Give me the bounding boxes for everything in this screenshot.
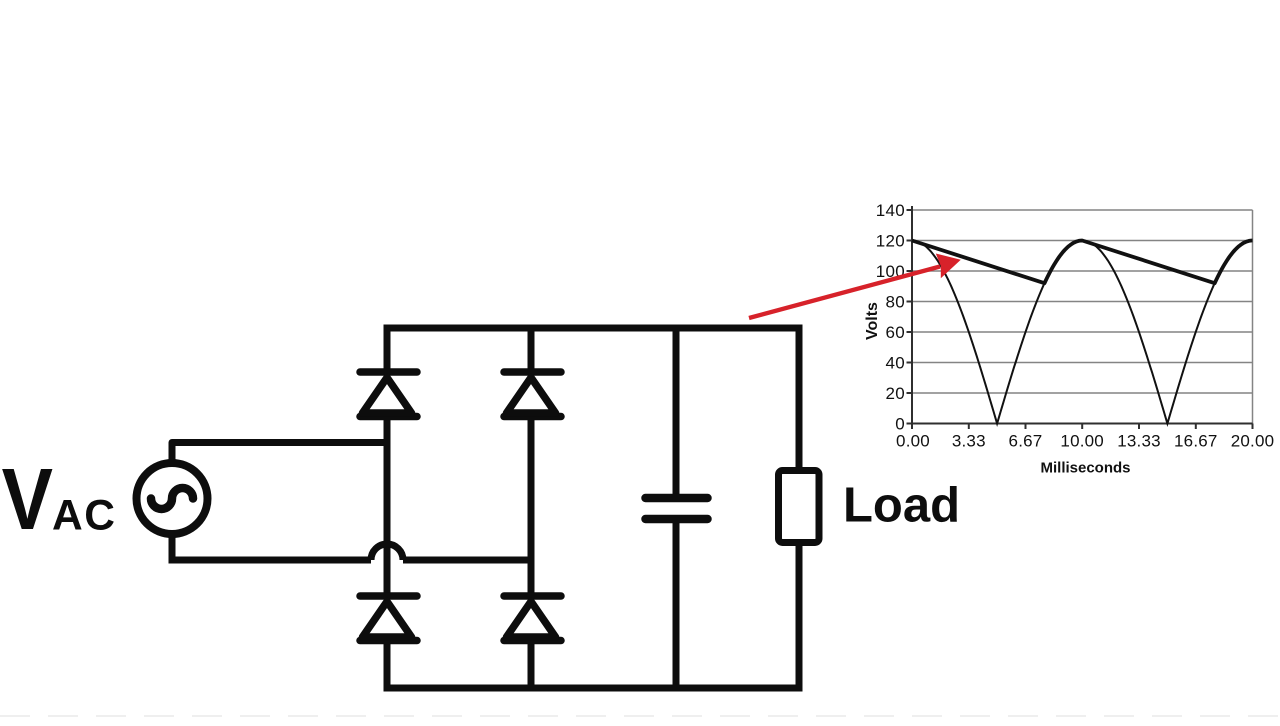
svg-text:80: 80 bbox=[885, 293, 905, 312]
svg-text:V: V bbox=[2, 452, 54, 548]
svg-text:Load: Load bbox=[843, 479, 960, 533]
svg-text:120: 120 bbox=[876, 232, 905, 251]
svg-text:140: 140 bbox=[876, 201, 905, 220]
svg-text:13.33: 13.33 bbox=[1117, 432, 1161, 451]
svg-text:16.67: 16.67 bbox=[1174, 432, 1218, 451]
svg-text:0.00: 0.00 bbox=[896, 432, 930, 451]
svg-text:6.67: 6.67 bbox=[1009, 432, 1043, 451]
svg-text:10.00: 10.00 bbox=[1060, 432, 1104, 451]
svg-text:60: 60 bbox=[885, 323, 905, 342]
svg-text:20: 20 bbox=[885, 384, 905, 403]
svg-text:AC: AC bbox=[52, 493, 116, 540]
svg-text:3.33: 3.33 bbox=[952, 432, 986, 451]
svg-text:20.00: 20.00 bbox=[1231, 432, 1275, 451]
svg-text:40: 40 bbox=[885, 354, 905, 373]
svg-text:Volts: Volts bbox=[864, 302, 881, 340]
svg-text:Milliseconds: Milliseconds bbox=[1040, 460, 1130, 477]
